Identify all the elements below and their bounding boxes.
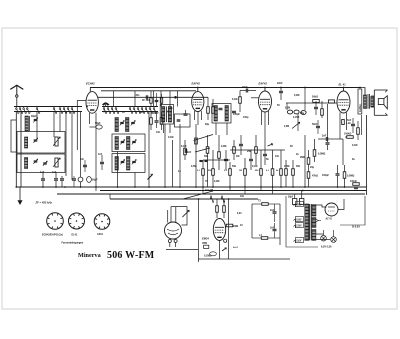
wire eye leads up [168, 207, 176, 223]
wire drop x=180 [179, 124, 181, 187]
svg-text:ECH42: ECH42 [86, 82, 95, 86]
resistor R7 oval [293, 110, 299, 119]
capacitor dark C43 [184, 110, 188, 115]
label Fassenbelegungen [62, 241, 84, 244]
label value 17 [122, 111, 125, 114]
svg-text:50nF: 50nF [312, 123, 318, 126]
svg-text:0,5M: 0,5M [191, 165, 196, 168]
switch contact S13 [111, 106, 115, 113]
label value 21 [232, 98, 237, 101]
trimmer C3b [43, 161, 47, 166]
label value 32 [191, 165, 196, 168]
wire eye top bend [171, 207, 187, 225]
svg-text:100pF: 100pF [322, 174, 329, 177]
wire mid horizontal y=150 [230, 149, 285, 151]
power transformer secondary heater [312, 230, 316, 241]
capacitor C26 [326, 139, 330, 150]
capacitor cluster C16a [153, 112, 159, 128]
svg-text:2x0,1: 2x0,1 [233, 247, 239, 249]
switch contact S4 [26, 106, 30, 113]
capacitor 1nF c [60, 176, 64, 187]
svg-text:50µF: 50µF [288, 197, 294, 199]
svg-text:0,1M: 0,1M [232, 98, 237, 101]
svg-text:50pF: 50pF [95, 122, 101, 125]
resistor R17 [233, 140, 236, 160]
svg-text:40nF: 40nF [242, 86, 248, 89]
wire EAF42b grid link [251, 97, 259, 99]
label 253 [233, 247, 239, 249]
resistor R21 [271, 150, 274, 187]
mains tap box 125V [294, 223, 304, 229]
resistor R34 h [252, 200, 280, 206]
IFT2 secondary [225, 106, 228, 122]
wire EM34 bottom lead [219, 241, 221, 260]
FM dipole mark [102, 102, 110, 106]
label value 22 [243, 116, 249, 119]
svg-text:50k: 50k [204, 155, 209, 158]
switch contact S16 [133, 106, 137, 113]
label EAF42 first [192, 82, 201, 86]
resistor R29 0.5M [343, 165, 354, 187]
IFT2 primary [214, 106, 217, 122]
wire drop x=21 [20, 112, 22, 188]
resistor R15 [218, 135, 221, 170]
tube ECH42 envelope [86, 92, 98, 114]
wire drop x=361.5 [361, 115, 363, 135]
label value 23 [277, 104, 280, 107]
svg-text:0,1: 0,1 [197, 170, 201, 172]
resistor upper U1c [160, 94, 162, 107]
label ZF 452kHz [35, 201, 53, 205]
svg-text:1,2k: 1,2k [346, 122, 351, 125]
wire drop x=117.5 [117, 152, 119, 188]
wire x=287 drop [286, 103, 288, 110]
wire mid horizontal y=160 [203, 159, 230, 161]
svg-text:Minerva: Minerva [78, 252, 101, 259]
wire x=305 drop [304, 135, 306, 187]
label value 7 [232, 165, 237, 168]
svg-text:50: 50 [277, 104, 280, 107]
IF transformer T2 box [212, 104, 231, 124]
svg-text:T2: T2 [258, 200, 261, 203]
resistor R4 [212, 99, 215, 113]
svg-text:2nF: 2nF [322, 135, 327, 138]
svg-text:0,1M: 0,1M [168, 136, 173, 139]
potentiometer P1 [182, 210, 189, 217]
label value 16 [156, 131, 161, 134]
wire heater runs [316, 234, 330, 240]
grid resistor R9a [312, 96, 319, 103]
capacitor cluster C41 [312, 120, 320, 134]
label EAF42 second [259, 82, 268, 86]
label 4V [240, 224, 243, 227]
fuse label [352, 226, 360, 229]
svg-text:30k: 30k [296, 165, 301, 168]
svg-text:EAF42: EAF42 [192, 82, 201, 86]
switch contact S7 [59, 106, 63, 113]
svg-text:AZ 41: AZ 41 [325, 218, 333, 221]
label EM34 [202, 236, 209, 240]
label value 15 [296, 165, 301, 168]
secondary arrows [316, 219, 321, 221]
svg-text:10n: 10n [275, 155, 280, 158]
svg-text:1nF: 1nF [52, 171, 57, 174]
wire diagonal dial cord [183, 191, 213, 199]
capacitor C28 100nF [350, 180, 359, 189]
wire drop x=172.5 [172, 140, 174, 187]
coil row2 trimmer [120, 140, 124, 145]
svg-text:22nF: 22nF [277, 82, 283, 85]
svg-text:1n: 1n [178, 170, 181, 173]
svg-text:5k: 5k [266, 158, 269, 161]
IFT2 trim caps [219, 108, 237, 112]
inductor L16 [252, 234, 280, 239]
wire EL41 top lead [343, 88, 345, 92]
wire lower horizontal y=249.6 [166, 249, 198, 251]
coil box low [112, 154, 145, 173]
wire drop x=54 [53, 112, 55, 138]
coil box mid [112, 134, 145, 152]
label vertical speaker field coil [358, 89, 362, 114]
wire band-switch bus upper left [14, 106, 82, 108]
wire IFT2 drops [216, 123, 227, 135]
resistor R30 [216, 199, 219, 218]
wire drop x=72 [71, 112, 73, 181]
label value 8 [205, 180, 208, 183]
label value 1 [181, 145, 186, 148]
coil row1 trimmer [120, 121, 124, 126]
wire secondary top y=90.8 [101, 90, 196, 92]
coil row2 L12 [115, 137, 118, 150]
wire antenna loop [11, 120, 17, 152]
socket view AZ41 [94, 214, 110, 230]
wire drop top x=161 [160, 91, 162, 107]
wire EL41 bottom leads [340, 113, 347, 140]
wire long vertical x=366.5 [366, 115, 368, 195]
coil row3 L14 [115, 157, 118, 171]
capacitor C17 22nF [277, 82, 283, 100]
svg-text:40nF: 40nF [153, 112, 159, 115]
svg-text:1n: 1n [170, 107, 173, 110]
cap marks near 203 [199, 160, 207, 161]
grid resistor R9b [329, 100, 335, 103]
capacitor C29 2nF [270, 204, 277, 222]
wire x=305 bus drop [304, 87, 306, 110]
label value 24 [294, 94, 299, 97]
svg-text:ZF = 452 kHz: ZF = 452 kHz [35, 201, 53, 205]
svg-text:100pF: 100pF [233, 113, 240, 116]
dial lamp La2 [331, 237, 337, 243]
svg-text:0,3M: 0,3M [221, 145, 226, 148]
svg-text:2n: 2n [296, 153, 299, 156]
power transformer secondary HT [312, 205, 316, 216]
trimmer C2 [33, 138, 37, 143]
switch contact S17 [137, 106, 141, 113]
resistor R11 [184, 140, 192, 160]
wire ECH42 to EAF42 grid y=97.3 [98, 96, 208, 98]
wire drop top x=135 [134, 91, 136, 107]
svg-text:1MΩ: 1MΩ [233, 225, 238, 228]
capacitor 1nF a [40, 171, 45, 187]
svg-text:Si 0,5A: Si 0,5A [352, 226, 360, 229]
grid box [175, 114, 191, 127]
label 6,3V [237, 213, 242, 215]
label value 25 [300, 112, 305, 115]
svg-text:EAF42: EAF42 [259, 82, 268, 86]
ground symbol [17, 187, 22, 205]
svg-text:2nF: 2nF [270, 227, 275, 230]
svg-text:VDR: VDR [202, 242, 207, 245]
coil row2 L13 [127, 137, 130, 150]
label value 0 [168, 136, 173, 139]
tube EAF42 second envelope [259, 91, 272, 112]
switch contact S6 [53, 106, 57, 113]
label value 31 [178, 170, 181, 173]
variable inductor L3 [53, 137, 60, 146]
label lamp rating [321, 246, 332, 249]
wire diagonal AVC2 [195, 148, 210, 152]
capacitor 4nF [98, 153, 104, 170]
switch contact S11 [103, 106, 107, 113]
svg-text:1nF: 1nF [40, 171, 45, 174]
resistor R6 oval [285, 108, 293, 114]
svg-text:Feldsp.: Feldsp. [359, 103, 362, 112]
pot arrow P2 [222, 248, 226, 251]
cathode resistor R41 [342, 120, 352, 126]
resistor R13 [206, 135, 209, 187]
switch contact S3 [23, 106, 27, 113]
label value 27 [310, 166, 315, 169]
switch contact S5 [36, 106, 40, 113]
wire AZ41 leads [316, 199, 344, 210]
label value 2 [204, 155, 209, 158]
svg-text:50k: 50k [232, 165, 237, 168]
label 40n upper [136, 94, 141, 97]
wire EL41 grid line [286, 102, 337, 104]
tube EL41 envelope [337, 91, 350, 113]
resistor R42 [195, 138, 198, 144]
capacitor C42 [80, 158, 87, 172]
antenna [10, 85, 23, 106]
IF transformer T1 box [160, 105, 173, 125]
capacitor 10nF b [52, 171, 58, 187]
svg-text:150V: 150V [296, 219, 302, 221]
IFT1 secondary [168, 107, 171, 123]
wire drop x=198.4 [197, 199, 199, 262]
wire x=298 drop [297, 114, 299, 131]
switch contact S2 [19, 106, 23, 113]
IFT1 core [166, 107, 168, 123]
resistor R31 [223, 199, 226, 218]
svg-text:125V: 125V [296, 225, 302, 227]
svg-text:1M: 1M [236, 155, 239, 158]
resistor R19 [255, 135, 258, 165]
switch slant mark [148, 174, 154, 179]
IFT1 primary [162, 107, 165, 123]
capacitor C27 100pF [322, 165, 340, 187]
wire x=327.5 drop [327, 104, 329, 139]
label value 6 [252, 165, 257, 168]
svg-text:2k: 2k [276, 170, 279, 172]
resistor R18 [244, 158, 247, 187]
coil row2 trimmer2 [132, 140, 136, 145]
wire drop x=66 [65, 112, 67, 177]
tube EAF42 first envelope [192, 92, 204, 112]
wire OT primary top [360, 88, 365, 96]
capacitor C24 [263, 135, 267, 165]
label value 28 [352, 158, 355, 161]
resistor R14 [212, 150, 215, 187]
resistor R5 [239, 91, 242, 113]
junction dots bus y=187 [15, 186, 345, 188]
label socket1 [42, 234, 63, 237]
wire drop x=60 [59, 112, 61, 132]
svg-text:6,3V 0,3A: 6,3V 0,3A [321, 246, 332, 249]
capacitor in grid box [177, 120, 181, 121]
connector small circle [224, 239, 227, 242]
volume pot arrow [284, 122, 300, 128]
mains tap box 150V [294, 217, 304, 223]
label value 4 [236, 155, 239, 158]
wire lower horizontal y=259 [198, 258, 290, 260]
switch contact S12 [107, 106, 111, 113]
svg-text:110V: 110V [296, 240, 302, 242]
switch contact row S40 [210, 195, 225, 202]
svg-text:6n: 6n [352, 158, 355, 161]
svg-text:0,5M: 0,5M [284, 165, 289, 168]
label value 29 [205, 189, 213, 192]
wire EAF42a bottom leads [195, 111, 202, 125]
wire x=280 drop [279, 204, 281, 245]
capacitor upper U1b [155, 93, 159, 107]
svg-text:100p: 100p [243, 116, 249, 119]
label value 3 [221, 145, 226, 148]
socket view ECH42/EAF42 [47, 213, 64, 230]
wire EAF42b bottom leads [262, 111, 269, 135]
wire B+ top bus y=87.5 [90, 87, 360, 89]
wire band-switch bus upper right [102, 106, 158, 108]
label EL41 [339, 83, 347, 87]
svg-text:2nF: 2nF [270, 209, 275, 212]
coupling C19 [314, 101, 318, 115]
resistor R8 oval [301, 111, 306, 115]
coil box lower [17, 154, 65, 173]
svg-text:10n: 10n [240, 195, 245, 198]
resistor R24 [292, 160, 295, 187]
resistor R33 oval [204, 252, 216, 258]
resistor R27 2M [300, 150, 310, 172]
switch arrow FM [268, 143, 273, 146]
svg-text:2x0,1M: 2x0,1M [205, 189, 213, 192]
resistor R26 0.3M [313, 139, 325, 162]
switch contact S18 [141, 106, 145, 113]
label AZ41 [325, 218, 333, 221]
svg-text:60p: 60p [205, 123, 210, 126]
svg-text:0,1MΩ: 0,1MΩ [204, 255, 211, 258]
wire EAF42b top lead [264, 87, 266, 91]
tube AZ41 envelope [325, 203, 338, 216]
svg-text:EM34: EM34 [202, 236, 209, 240]
label ZF 460 [142, 99, 150, 102]
coil box upper [17, 132, 65, 154]
svg-text:6,3V: 6,3V [237, 213, 242, 215]
svg-text:60: 60 [290, 145, 293, 148]
switch contact S19 [145, 106, 149, 113]
resistor R10 [321, 101, 324, 118]
tube EM34 envelope [213, 219, 225, 241]
svg-text:40n: 40n [139, 111, 144, 114]
switch contact S14 [115, 106, 119, 113]
capacitor C23 [249, 150, 253, 170]
svg-text:0,1: 0,1 [266, 170, 270, 172]
wire ECH42 bottom leads [90, 113, 97, 191]
tube dial-eye circle [165, 222, 182, 247]
wire x=343 drop [342, 139, 344, 165]
VDR box [202, 242, 209, 248]
svg-text:ZF 460: ZF 460 [142, 99, 150, 102]
svg-text:AZ41: AZ41 [97, 233, 104, 236]
svg-text:0,1M: 0,1M [181, 145, 186, 148]
wire ECH42 anode to top bus [89, 88, 91, 92]
resistor R25 100k [344, 133, 353, 139]
svg-text:2MΩ: 2MΩ [300, 156, 305, 159]
svg-text:4V: 4V [240, 224, 243, 227]
svg-text:47kΩ: 47kΩ [312, 175, 318, 178]
label value 18 [139, 111, 144, 114]
label value 26 [352, 144, 357, 147]
coil row3 trimmer [120, 160, 124, 165]
svg-text:100kΩ: 100kΩ [344, 133, 351, 136]
wire drop x=37 [36, 112, 38, 139]
labels resistor row [197, 170, 279, 172]
resistor R16 [229, 162, 232, 187]
svg-text:0,2M: 0,2M [214, 180, 219, 183]
wire drop x=135 [134, 173, 136, 188]
resistor R32 1M [226, 224, 238, 228]
coil row1 L11 [126, 118, 129, 132]
coil L2 [25, 137, 28, 148]
variable inductor L5 [53, 158, 60, 167]
capacitor C40 [347, 118, 355, 133]
electrolytic C32 50uF [300, 191, 304, 205]
svg-text:EL41: EL41 [72, 234, 78, 237]
svg-text:Fassenbelegungen: Fassenbelegungen [62, 241, 84, 244]
dial lamp La1 [321, 235, 327, 241]
label ECH42 [86, 82, 95, 86]
label value 30 [240, 195, 245, 198]
connector oval J2 [87, 177, 99, 183]
speaker LS [371, 90, 388, 115]
svg-text:25k: 25k [247, 150, 252, 153]
wire bus y=187 [16, 186, 366, 188]
coil row3 trimmer2 [132, 160, 136, 165]
svg-text:0,1M: 0,1M [252, 165, 257, 168]
capacitor C25 2nF [318, 135, 343, 142]
svg-text:50kΩ: 50kΩ [312, 96, 318, 99]
svg-text:30pF: 30pF [31, 115, 37, 118]
wire drop x=165 [164, 124, 166, 187]
wire drop x=228.6 [228, 199, 230, 259]
svg-text:100nF: 100nF [350, 180, 357, 183]
label value 5 [247, 150, 252, 153]
svg-text:506 W-FM: 506 W-FM [107, 250, 155, 261]
svg-text:60p: 60p [300, 112, 305, 115]
label 100pF T2 [233, 113, 240, 116]
power transformer core [309, 204, 311, 240]
wire drop x=149 [148, 112, 150, 188]
trimmer C3 [33, 159, 37, 164]
label value 9 [214, 180, 219, 183]
